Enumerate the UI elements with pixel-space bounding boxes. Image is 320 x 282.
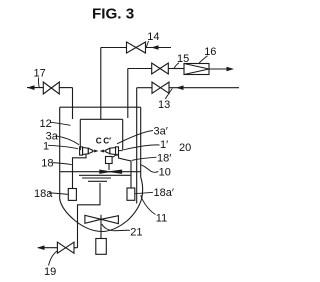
svg-text:15: 15 — [177, 53, 189, 65]
svg-text:14: 14 — [147, 31, 159, 43]
svg-text:16: 16 — [204, 46, 216, 58]
svg-text:18a′: 18a′ — [154, 187, 174, 199]
svg-text:18: 18 — [41, 158, 53, 170]
svg-text:C: C — [96, 137, 102, 146]
svg-text:18′: 18′ — [157, 153, 171, 165]
svg-text:FIG. 3: FIG. 3 — [92, 6, 134, 23]
svg-text:1′: 1′ — [160, 139, 168, 151]
svg-text:17: 17 — [34, 68, 46, 80]
svg-text:18a: 18a — [34, 188, 53, 200]
svg-text:13: 13 — [158, 99, 170, 111]
svg-text:12: 12 — [40, 118, 52, 130]
svg-text:10: 10 — [159, 167, 171, 179]
svg-text:3a′: 3a′ — [154, 126, 168, 138]
svg-text:20: 20 — [179, 142, 191, 154]
svg-text:21: 21 — [130, 227, 142, 239]
svg-text:C′: C′ — [103, 137, 111, 146]
svg-text:1: 1 — [43, 140, 49, 152]
svg-text:11: 11 — [156, 212, 167, 224]
svg-text:19: 19 — [44, 266, 56, 278]
